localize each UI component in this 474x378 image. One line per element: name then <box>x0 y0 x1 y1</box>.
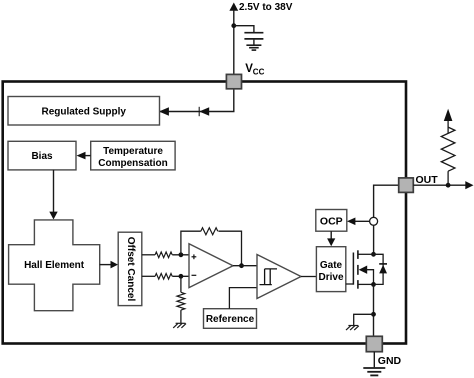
svg-text:OUT: OUT <box>416 174 439 186</box>
arrowhead into Hall Element <box>49 212 57 220</box>
gate bar <box>352 253 354 285</box>
arrowhead into Regulated Supply <box>159 107 169 116</box>
Hall Element cross <box>9 220 100 311</box>
resistor top input <box>155 252 172 258</box>
block Temperature Compensation <box>91 141 175 170</box>
svg-text:Compensation: Compensation <box>98 158 167 169</box>
wire Hall Element to Offset Cancel <box>100 264 112 266</box>
ground (hatched, substrate) <box>346 326 359 331</box>
node minus input <box>179 274 184 279</box>
wire Temperature Compensation to Bias <box>84 155 91 157</box>
block Offset Cancel <box>118 232 142 305</box>
block Gate Drive <box>316 247 345 292</box>
feedback wire down to output <box>218 231 241 266</box>
body arrow <box>359 266 368 274</box>
source stub <box>358 283 374 285</box>
ground (GND pin) <box>363 368 385 375</box>
block Regulated Supply <box>8 97 160 126</box>
wire source to GND pin <box>373 284 375 336</box>
arrowhead load <box>465 181 473 189</box>
block Bias <box>8 141 76 170</box>
channel segments <box>357 250 359 288</box>
hysteresis symbol <box>260 269 278 285</box>
diode body <box>379 263 387 265</box>
supply arrow up <box>229 3 238 11</box>
resistor bottom input <box>155 274 172 280</box>
resistor pull-up <box>447 171 449 185</box>
svg-text:Regulated Supply: Regulated Supply <box>41 107 126 118</box>
svg-text:2.5V to 38V: 2.5V to 38V <box>239 2 293 13</box>
wire resistor to op-amp minus <box>172 275 189 277</box>
arrowhead mid-wire with tick <box>198 107 200 116</box>
pin VCC <box>226 74 241 88</box>
wire OCP to Gate Drive <box>330 231 332 239</box>
wire op-amp output to schmitt <box>233 265 258 267</box>
svg-text:Hall Element: Hall Element <box>24 260 85 271</box>
svg-text:Drive: Drive <box>318 272 343 283</box>
capacitor bypass <box>244 32 263 34</box>
ground (hatched, resistor) <box>173 323 186 328</box>
body diode branch <box>374 254 384 284</box>
node op-amp output <box>239 263 244 268</box>
node junction dot at bypass tap <box>231 23 236 28</box>
sense circle on output line <box>370 217 378 225</box>
node substrate tap <box>371 312 376 317</box>
drain stub <box>358 253 374 255</box>
svg-text:Offset Cancel: Offset Cancel <box>125 237 136 302</box>
wire to substrate ground <box>354 314 374 325</box>
svg-text:Temperature: Temperature <box>103 146 163 157</box>
wire Offset Cancel bottom output <box>142 275 155 277</box>
feedback wire up from plus node <box>181 231 201 255</box>
wire sense to OCP <box>352 220 370 222</box>
pin OUT <box>399 178 414 193</box>
wire supply to VCC pin <box>233 10 235 76</box>
arrowhead into Offset Cancel <box>111 261 119 269</box>
chip outline box <box>3 82 406 344</box>
wire VCC pin to Regulated Supply <box>160 89 234 112</box>
wire OUT pin to load <box>413 184 467 186</box>
svg-text:Bias: Bias <box>31 151 53 162</box>
ground (capacitor) <box>246 45 261 50</box>
arrowhead into OCP <box>347 218 355 226</box>
arrowhead into Gate Drive <box>327 238 335 246</box>
block OCP <box>316 210 347 232</box>
gate lead <box>346 283 354 285</box>
wire OUT pin to drain <box>374 185 399 217</box>
svg-text:Reference: Reference <box>206 314 255 325</box>
resistor feedback <box>201 228 218 235</box>
node drain <box>371 252 376 257</box>
op-amp amplifier <box>189 244 233 288</box>
wire GND pin to ground <box>373 352 375 368</box>
node source <box>371 282 376 287</box>
schmitt trigger <box>257 255 301 299</box>
wire Offset Cancel top output <box>142 254 155 256</box>
block Reference <box>204 309 257 329</box>
wire resistor to op-amp plus <box>172 254 189 256</box>
pin GND <box>366 336 382 351</box>
node plus input <box>179 252 184 257</box>
node pull-up tap <box>446 183 451 188</box>
arrowhead into Bias <box>77 152 86 160</box>
wire Bias to Hall Element <box>53 170 55 213</box>
arrowhead pull-up supply <box>444 109 453 121</box>
wire Reference to schmitt <box>229 288 257 309</box>
wire to bypass capacitor <box>234 26 254 33</box>
svg-text:OCP: OCP <box>320 215 343 227</box>
svg-text:Gate: Gate <box>320 260 343 271</box>
svg-text:CC: CC <box>253 68 265 77</box>
wire schmitt to Gate Drive <box>301 276 316 278</box>
resistor to ground from minus node <box>180 276 182 292</box>
svg-text:GND: GND <box>378 355 402 367</box>
